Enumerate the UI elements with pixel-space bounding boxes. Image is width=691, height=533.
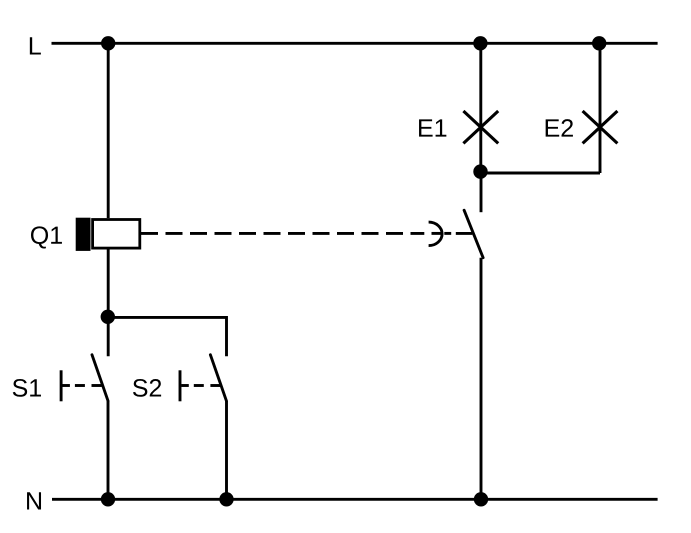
relay contact blade — [464, 210, 483, 258]
lamp E1 label — [419, 119, 446, 136]
switch S2 actuator dashed link — [181, 384, 189, 387]
switch S2 actuator bar — [179, 370, 182, 401]
junction on N at relay contact branch — [474, 492, 488, 506]
node L label — [30, 37, 41, 54]
linkage dash inside arc — [432, 232, 442, 235]
wire from L down to lamp E1 — [479, 43, 482, 173]
wire from S2 down to N — [225, 401, 228, 500]
wire joining S1 and S2 branches — [108, 317, 226, 356]
relay coil Q1 body — [93, 220, 140, 249]
lamp E2 cross — [583, 111, 618, 143]
switch S2 label — [133, 379, 161, 397]
junction on L at E1 branch — [473, 36, 487, 50]
junction on N at S1 — [101, 492, 115, 506]
wire from L down to coil Q1 — [107, 43, 110, 218]
linkage arc — [429, 222, 442, 246]
wire N bus — [52, 498, 658, 501]
junction on L at E2 branch — [592, 36, 606, 50]
junction below E1 — [473, 164, 487, 178]
switch S2 blade — [210, 355, 226, 401]
linkage dashes after arc — [444, 232, 451, 235]
wire from coil Q1 down to junction — [107, 250, 110, 357]
switch S1 label — [13, 379, 41, 397]
relay coil Q1 black end block — [76, 218, 91, 251]
node N label — [27, 492, 41, 509]
dashed mechanical linkage from Q1 — [141, 232, 424, 235]
junction on L at Q1 branch — [101, 36, 115, 50]
switch S1 actuator bar — [60, 370, 63, 401]
wire from S1 down to N — [107, 401, 110, 500]
wire joining E1 and E2 branches — [481, 172, 600, 175]
lamp E1 cross — [463, 111, 498, 143]
wire from relay contact down to N — [480, 258, 483, 500]
switch S1 blade — [92, 355, 108, 401]
wire from junction down to relay contact — [480, 172, 483, 213]
wire from L down to lamp E2 — [599, 43, 602, 173]
switch S1 actuator dashed link — [62, 384, 70, 387]
wire L bus — [52, 42, 658, 45]
junction above S1 — [101, 310, 115, 324]
lamp E2 label — [546, 119, 573, 136]
junction on N at S2 — [219, 492, 233, 506]
relay Q1 label — [31, 226, 62, 248]
